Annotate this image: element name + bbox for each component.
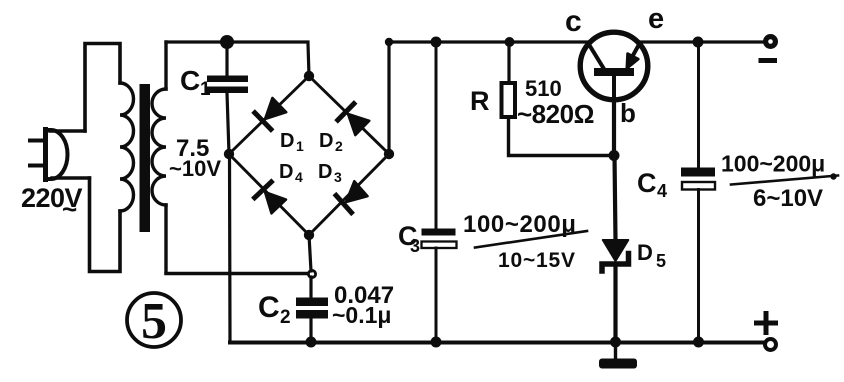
fraction bar (C4)	[731, 176, 838, 185]
node: C4 bottom junction	[693, 337, 704, 348]
transformer T1 secondary winding	[152, 42, 166, 273]
plug P1 (220V mains plug)	[30, 130, 68, 180]
fraction bar (C3)	[475, 231, 587, 248]
wire: bridge left vertex down to bottom rail	[228, 154, 232, 343]
svg-text:D: D	[318, 161, 332, 183]
wire: C3 upper lead	[435, 42, 438, 229]
svg-text:2: 2	[280, 307, 291, 328]
svg-text:510: 510	[525, 76, 562, 101]
svg-text:~0.1μ: ~0.1μ	[332, 302, 391, 328]
node: bridge bottom vertex	[304, 230, 314, 240]
svg-text:~820Ω: ~820Ω	[517, 99, 594, 129]
svg-text:D: D	[280, 130, 294, 152]
label minus	[759, 58, 778, 63]
node: bridge top vertex	[304, 71, 314, 81]
capacitor C2	[296, 298, 328, 319]
svg-text:5: 5	[656, 251, 666, 271]
wire plug top to primary	[50, 129, 85, 132]
svg-text:b: b	[620, 98, 636, 128]
wire: D5 to bottom rail	[613, 266, 617, 343]
wire plug bottom to primary	[52, 176, 90, 179]
svg-text:2: 2	[335, 138, 343, 154]
svg-text:100~200μ: 100~200μ	[721, 151, 825, 177]
capacitor C3 (electrolytic)	[422, 229, 457, 249]
terminal: negative output	[763, 34, 778, 49]
capacitor C4 (electrolytic)	[681, 168, 715, 190]
wire: bridge bottom vertex to junction	[309, 235, 311, 271]
wire: bridge right vertex up to DC rail	[387, 42, 390, 154]
capacitor C1	[207, 76, 248, 94]
svg-text:D: D	[637, 240, 653, 265]
node: C4 top tap	[693, 37, 704, 48]
svg-text:4: 4	[295, 169, 303, 185]
svg-text:C: C	[637, 168, 657, 198]
ground	[599, 343, 637, 369]
resistor R (box)	[502, 83, 516, 117]
svg-text:~: ~	[62, 194, 77, 224]
wire: junction down to C2	[309, 277, 312, 298]
node: AC return junction (ring)	[308, 270, 315, 277]
node: bridge left vertex	[224, 149, 234, 159]
svg-text:4: 4	[657, 181, 667, 201]
wire: C2 to bottom rail	[309, 318, 312, 343]
wire: C1 top lead	[225, 42, 228, 76]
wire: C1 bottom lead to bridge left vertex	[227, 93, 229, 154]
node: base junction	[609, 150, 620, 161]
diode D4	[255, 182, 286, 214]
diode D3	[336, 181, 368, 212]
svg-text:~10V: ~10V	[169, 156, 221, 181]
node: corner right vertex rail	[385, 38, 393, 46]
svg-text:10~15V: 10~15V	[498, 249, 576, 272]
transistor Q1	[580, 32, 648, 101]
svg-text:D: D	[319, 130, 333, 152]
wire: base node down to D5	[615, 156, 616, 241]
wire: C4 upper lead	[697, 42, 700, 168]
bridge rectifier diamond wires	[229, 76, 389, 235]
diode D1	[255, 98, 286, 129]
svg-text:5: 5	[141, 293, 167, 350]
svg-text:C: C	[180, 65, 200, 96]
label plus	[757, 314, 776, 333]
svg-text:c: c	[565, 5, 582, 38]
svg-text:e: e	[648, 3, 664, 35]
transformer T1 primary winding	[85, 44, 134, 272]
node: D5 bottom junction	[610, 337, 621, 348]
node: R top tap	[505, 37, 515, 47]
svg-text:1: 1	[200, 79, 211, 100]
zener diode D5	[602, 240, 629, 271]
wire: R lower lead to base node	[509, 117, 615, 156]
node: C1 tap on AC rail	[220, 35, 234, 49]
wire: top DC rail	[389, 40, 764, 43]
wire: bottom rail	[230, 341, 764, 345]
wire: R upper lead	[507, 42, 510, 83]
svg-text:3: 3	[410, 236, 420, 256]
svg-text:D: D	[279, 161, 293, 183]
node: C3 bottom junction	[431, 337, 442, 348]
svg-text:R: R	[470, 86, 490, 116]
node: C3 top tap	[431, 37, 442, 48]
svg-text:6~10V: 6~10V	[753, 185, 823, 212]
diode D2	[338, 104, 370, 135]
svg-text:1: 1	[296, 138, 304, 154]
wire: C3 lower lead	[435, 248, 438, 343]
svg-text:C: C	[258, 291, 280, 324]
svg-text:3: 3	[334, 169, 342, 185]
wire: base lead down from transistor	[612, 101, 616, 156]
wire: C4 lower lead	[697, 190, 700, 343]
wire: top rail AC side	[166, 42, 309, 76]
transformer T1 core	[140, 84, 151, 232]
node: bridge right vertex	[384, 149, 394, 159]
node: C2 bottom rail junction	[306, 337, 317, 348]
wire: secondary bottom return	[166, 272, 309, 275]
terminal: positive output	[765, 339, 776, 350]
figure number 5 in circle	[127, 293, 181, 350]
